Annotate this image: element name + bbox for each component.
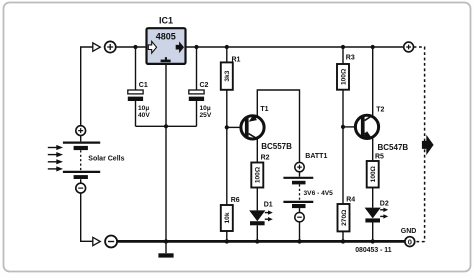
svg-text:D1: D1 <box>264 202 273 209</box>
svg-text:R5: R5 <box>375 153 384 160</box>
svg-text:R6: R6 <box>231 197 240 204</box>
svg-text:BC557B: BC557B <box>261 142 292 151</box>
svg-text:100Ω: 100Ω <box>340 68 347 85</box>
svg-text:080453 - 11: 080453 - 11 <box>355 247 392 254</box>
svg-text:4805: 4805 <box>156 31 176 41</box>
svg-text:3V6 - 4V5: 3V6 - 4V5 <box>304 190 334 197</box>
svg-text:R3: R3 <box>346 55 355 62</box>
svg-text:C1: C1 <box>139 82 148 89</box>
svg-text:BATT1: BATT1 <box>305 153 327 160</box>
svg-text:D2: D2 <box>380 201 389 208</box>
svg-text:R2: R2 <box>261 155 270 162</box>
svg-text:270Ω: 270Ω <box>341 209 348 226</box>
svg-text:BC547B: BC547B <box>378 143 409 152</box>
svg-text:R1: R1 <box>232 56 241 63</box>
svg-text:25V: 25V <box>200 112 212 119</box>
svg-text:C2: C2 <box>200 82 209 89</box>
svg-text:T1: T1 <box>260 106 268 113</box>
svg-text:GND: GND <box>401 228 417 235</box>
svg-text:IC1: IC1 <box>159 16 173 26</box>
svg-text:3k3: 3k3 <box>224 70 231 81</box>
svg-text:100Ω: 100Ω <box>370 165 377 182</box>
svg-text:Solar Cells: Solar Cells <box>88 155 124 162</box>
svg-text:0: 0 <box>408 237 412 246</box>
svg-text:40V: 40V <box>138 112 150 119</box>
svg-text:R4: R4 <box>346 197 355 204</box>
svg-text:100Ω: 100Ω <box>255 166 262 183</box>
svg-text:10k: 10k <box>224 212 231 223</box>
svg-text:T2: T2 <box>376 106 384 113</box>
